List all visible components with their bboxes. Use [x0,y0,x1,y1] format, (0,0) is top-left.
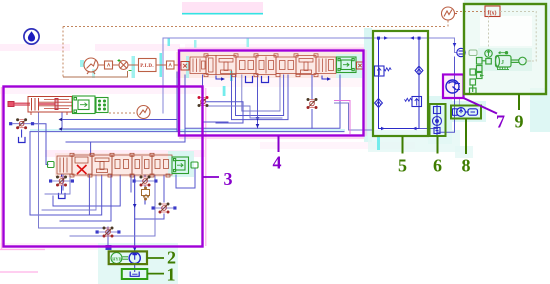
wire long left rail [176,72,178,132]
wire O2 down [144,186,146,190]
label line 1 [147,273,164,275]
servovalve assembly lower [57,153,172,177]
wire box5 right branch [418,38,420,129]
second tank stub box4 [262,77,269,83]
wire nested loop near X1 a [206,102,243,123]
group box 1 [122,269,148,279]
link gain1 to sum [113,64,120,66]
lower valve connector right green [191,162,198,168]
label line 5 [402,136,404,154]
wire lower valve drops [53,175,120,206]
wire bottom mesh h [62,175,64,190]
label line 7 [464,98,498,114]
function block fx [485,6,500,17]
orifice O2 [133,176,158,187]
wire mesh extra a [45,175,70,194]
transformer circle box2 [111,253,122,264]
gauge2 top right [442,7,458,20]
servovalve assembly upper [190,54,336,77]
wire orifice left tank [21,130,23,137]
orifice O4 bottom [96,227,121,238]
svg-text:J: J [501,60,504,66]
tank stub under left orifice [19,138,26,143]
wire lower valve drop 2 [88,175,90,215]
wire below right orifice [135,214,164,219]
PID controller block [139,59,157,72]
svg-text:4: 4 [273,153,282,173]
sensor block dotted green [96,98,108,113]
wire cylinder port lines [62,112,177,129]
svg-text:7: 7 [496,112,505,132]
wire long horizontal rail [30,132,344,215]
wire to bottom orifice [107,227,109,247]
wire box5 to box6 link [419,128,438,130]
red cross orifice X2 [307,98,318,109]
wire lower valve right drop [163,175,165,202]
wire orifice right run [33,124,48,165]
gauge3 displacement display [137,106,150,119]
wire valve A rail [66,75,185,142]
dashed fx down to check [488,17,490,49]
fitting stack box9 left [470,66,483,95]
wire valve inner loop 3 [242,75,280,111]
valve connector output right [357,62,365,69]
svg-text:2: 2 [167,248,176,268]
wire drop to converter [455,38,457,53]
rotary load circle box7 [446,80,460,93]
feedback line [63,71,128,77]
group box 7 [443,75,464,99]
wire orifice X2 branch [311,75,313,99]
wire valve inner loop 2 [236,75,284,116]
arrowhead hook [221,77,225,81]
wire bottom long mesh [70,175,155,236]
red cross orifice X1 [198,96,209,107]
svg-text:f(x): f(x) [488,10,497,17]
dashed stub to gauge2 [447,21,449,27]
converter circle [457,48,465,56]
arrow box5 top right [410,36,414,40]
lower valve connector left green [48,162,55,168]
relief valve box5 right [405,97,422,107]
arrowhead hook right [327,77,331,81]
magenta sensor wire box4 [334,101,350,135]
group box 4 [179,51,364,136]
gauge1 source [84,58,98,74]
wire drop to lower valve [90,142,92,155]
motor assembly box9 [477,50,527,77]
gain1 block [105,61,113,69]
cylinder rod [8,102,30,107]
tanks under valve center box4 [246,77,253,83]
wire valve to O2 [144,175,146,177]
box6 component stack [433,107,442,134]
valve connector input [181,62,189,71]
link sum to PID [128,64,138,66]
orifice leak left [9,118,34,129]
wire pump to tank [134,264,136,272]
label line 3 [203,176,219,178]
svg-text:6: 6 [433,156,442,176]
spool mass block green lower [172,157,189,174]
wire orifice X1 lower [203,107,229,122]
pump circle box2 [129,252,140,263]
gray link motor to dashed [526,60,531,62]
svg-text:9: 9 [515,112,524,132]
svg-text:5: 5 [398,156,407,176]
svg-text:HYD: HYD [112,256,121,261]
wire orifice X2 lower [311,110,313,129]
group box 9 [464,4,546,94]
relief valve small brown [142,187,150,200]
hook arrow under valve right [322,76,328,79]
red X in lower valve [77,165,87,174]
label line 4 [278,136,280,152]
wire box7 to box8 lavender [459,98,461,106]
node J2 [418,37,421,40]
cylinder body [28,97,72,116]
wire relief to down [144,199,146,205]
link gain2 to valve connector [174,64,181,66]
group box 6 [430,104,446,136]
check valve box5 left [375,99,383,108]
wire valve rail loop [185,75,340,128]
wire orifice X1 branch [202,75,204,96]
fluid properties drop icon [24,29,39,44]
wire valve inner loop [232,75,289,120]
link PID to gain2 [156,64,166,66]
wire O1 tank [61,186,63,193]
group box 5 [373,31,428,136]
connector on box3 edge [106,245,112,250]
dashed gauge2 to fx [456,11,485,13]
arrow pump feed [133,247,137,251]
wire light vertical left [39,112,109,228]
wire box5 left branch [379,38,420,129]
wire valve to O1 [61,175,63,177]
small signal tab [469,50,477,56]
wire mesh extra b [42,175,96,210]
label line 6 [437,136,439,154]
wire signal main loop W1 [163,38,455,113]
tank symbol box1 [130,272,139,277]
mech link box2 [123,257,129,259]
wire pump supply vertical right [438,57,455,132]
svg-text:3: 3 [224,169,233,189]
wire pump feed [134,175,136,253]
spool mass block green upper [337,57,357,73]
gain2 block [167,61,175,69]
arrow box5 bottom left [381,127,385,131]
wire nested loop near X1 b [206,106,282,118]
summing junction [118,59,132,71]
orifice O1 [49,176,74,187]
tank stub under O1 [59,194,66,199]
arrow box5 top left [384,36,388,40]
arrow tank drop 2 [256,124,260,128]
dashed fx right route [500,12,536,62]
wire lower valve drop 3 [60,175,111,221]
wire valve tank drop [257,75,259,128]
arrow on pump feed [133,204,137,208]
link gauge1 to gain1 [98,64,104,66]
label line 8 [465,119,467,155]
label line 9 [518,94,520,110]
group box 3 [4,87,203,247]
orifice O3 [152,203,177,214]
check valve box5 right [415,66,423,75]
group box 8 [451,106,481,119]
svg-text:8: 8 [462,156,471,176]
arrow on drop wire [453,43,457,47]
mass block green [73,96,96,114]
arrow box5 bottom right [413,127,417,131]
dashed signal long horizontal [63,26,446,28]
node J1 [377,37,380,40]
pump box8 [453,108,478,117]
wire mid drop [130,175,132,192]
wire box6 chain vertical [436,104,438,136]
svg-text:P.I.D.: P.I.D. [140,64,154,69]
relief valve box5 left [375,66,392,76]
hook arrow under valve left [216,76,222,79]
dashed sensor to gauge3 [109,112,137,114]
wire box4 to box5 lower [334,103,374,130]
arrow tank drop 1 [256,117,260,121]
dashed signal frame vertical [62,27,64,78]
label line 2 [147,257,164,259]
group box 2 [109,251,147,264]
wire right side mesh [176,168,195,188]
